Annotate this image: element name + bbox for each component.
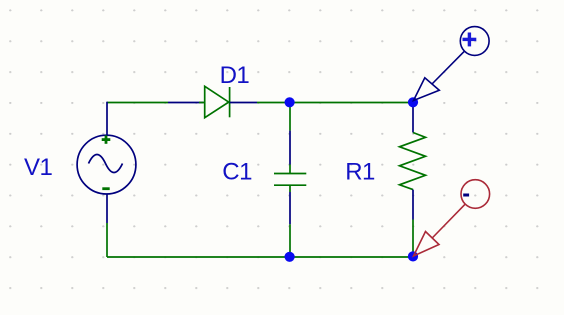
probe - sign xyxy=(463,194,469,197)
wire V1 bottom lead (navy) xyxy=(106,194,108,223)
capacitor C1 xyxy=(274,165,306,193)
wire C1 upper lead (navy) xyxy=(289,131,291,165)
svg-text:V1: V1 xyxy=(24,154,53,181)
svg-text:D1: D1 xyxy=(220,62,250,89)
probe - terminal circle xyxy=(461,180,490,209)
wire C1 top (green) xyxy=(289,103,291,131)
svg-text:C1: C1 xyxy=(222,158,252,185)
wire R1 lower lead (navy) xyxy=(412,190,414,220)
wire left vertical lower (green) xyxy=(106,223,108,257)
probe - arrowhead xyxy=(414,232,440,257)
svg-text:R1: R1 xyxy=(345,158,375,185)
probe + terminal circle xyxy=(460,27,489,56)
junction node bottom-center xyxy=(285,252,295,262)
probe - lead line xyxy=(432,204,465,238)
probe + sign xyxy=(463,33,477,47)
probe + arrowhead xyxy=(414,78,440,101)
resistor R1 xyxy=(400,133,426,190)
wire bottom horizontal (green) xyxy=(107,256,413,258)
wire R1 bottom (green) xyxy=(412,220,414,258)
wire C1 bottom (green) xyxy=(289,224,291,257)
junction node top-right xyxy=(408,97,418,107)
wire left vertical upper (navy lead of V1) xyxy=(106,102,108,136)
junction node bottom-right xyxy=(408,251,418,261)
voltage source V1 xyxy=(77,135,136,194)
wire top-left horizontal (green) xyxy=(107,102,168,104)
diode D1 xyxy=(199,86,230,117)
wire diode cathode lead (navy) xyxy=(230,102,257,104)
wire top middle (green) xyxy=(257,102,413,104)
probe + lead line xyxy=(432,51,464,84)
junction node top-center xyxy=(285,97,295,107)
wire R1 upper lead (navy) xyxy=(412,103,414,133)
wire diode anode lead (navy) xyxy=(168,102,204,104)
wire C1 lower lead (navy) xyxy=(289,192,291,224)
